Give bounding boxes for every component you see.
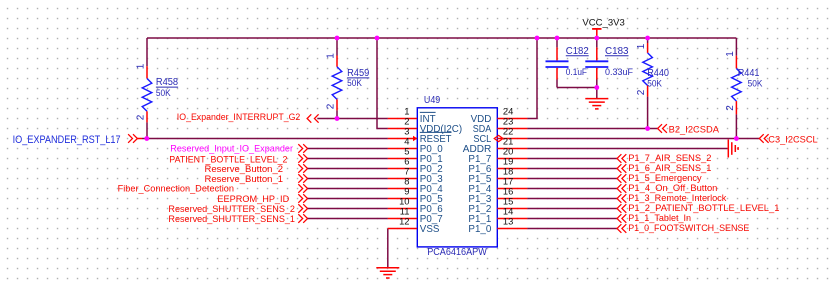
svg-text:R458: R458 <box>156 77 179 88</box>
svg-text:1: 1 <box>636 43 647 49</box>
net P1_5_Emergency label <box>617 173 702 184</box>
wire P0_3 pin 7 <box>308 178 388 180</box>
net Reserve_Button_2 label <box>205 164 308 175</box>
pin names left column <box>420 114 462 235</box>
wire capacitor bottoms join <box>557 87 597 89</box>
svg-text:2: 2 <box>725 105 736 111</box>
wire P1_5 pin 18 <box>527 178 617 180</box>
svg-text:R441: R441 <box>738 68 760 79</box>
node junction rail/R459 <box>335 36 340 41</box>
pin 3 RESET input arrow marker <box>413 136 417 142</box>
resistor R440 <box>636 38 669 129</box>
resistor R459 <box>325 38 369 119</box>
svg-text:2: 2 <box>325 103 336 109</box>
net Fiber_Connection_Detection label <box>118 183 308 194</box>
net P1_0_FOOTSWITCH_SENSE label <box>617 223 749 234</box>
wire P0_6 pin 10 <box>308 208 388 210</box>
svg-text:B2_I2CSDA: B2_I2CSDA <box>669 124 720 135</box>
node junction rail/pin24 feed <box>535 36 540 41</box>
wire P0_0 pin 4 <box>308 148 388 150</box>
net PATIENT_BOTTLE_LEVEL_2 label <box>169 154 307 165</box>
node junction rail/R440 <box>645 36 650 41</box>
ground sideways at ADDR <box>728 140 738 158</box>
pin stubs right pins 24-13 <box>497 119 527 229</box>
net P1_1_Tablet_In label <box>617 213 691 224</box>
IC U49 PCA6416APW body <box>417 95 497 258</box>
wire P1_4 pin 17 <box>527 188 617 190</box>
net IO_EXPANDER_RST_L17 label <box>13 134 142 146</box>
capacitor C183 <box>585 38 633 88</box>
pin 22 SCL diamond marker <box>494 135 503 141</box>
svg-text:12: 12 <box>399 216 409 227</box>
net P1_4_On_Off_Button label <box>617 183 717 194</box>
net P1_6_AIR_SENS_1 label <box>617 163 711 174</box>
pin numbers right 24-13 <box>503 106 513 227</box>
svg-text:0.33uF: 0.33uF <box>605 67 633 78</box>
wire VCC_3V3 rail <box>147 37 736 39</box>
wire SDA pin 23 <box>527 128 657 130</box>
wire P1_6 pin 19 <box>527 168 617 170</box>
wire P0_2 pin 6 <box>308 168 388 170</box>
node junction caps/gnd <box>594 85 599 90</box>
svg-text:VSS: VSS <box>420 224 440 235</box>
svg-text:R440: R440 <box>647 68 669 79</box>
wire SCL pin 22 <box>527 138 759 140</box>
wire P1_0 pin 13 <box>527 228 617 230</box>
svg-text:PCA6416APW: PCA6416APW <box>427 247 487 258</box>
wire P1_3 pin 16 <box>527 198 617 200</box>
net B2_I2CSDA label <box>658 124 720 135</box>
net Reserve_Button_1 label <box>205 174 308 185</box>
svg-text:U49: U49 <box>424 95 441 106</box>
svg-text:50K: 50K <box>156 88 171 99</box>
svg-text:C183: C183 <box>605 46 629 57</box>
net P1_7_AIR_SENS_2 label <box>617 153 711 164</box>
svg-text:VCC_3V3: VCC_3V3 <box>582 18 624 29</box>
resistor R458 <box>135 38 178 139</box>
capacitor C182 <box>546 38 590 88</box>
power VCC_3V3 <box>582 18 624 38</box>
svg-text:1: 1 <box>325 53 336 59</box>
node junction R458/RST <box>144 136 149 141</box>
svg-text:C3_I2CSCL: C3_I2CSCL <box>768 134 818 145</box>
pin INT overline <box>420 111 436 113</box>
svg-text:1: 1 <box>135 63 146 69</box>
ground under capacitors <box>596 88 598 99</box>
net Reserved_Input_IO_Expander label <box>170 144 307 154</box>
ground at VSS <box>376 268 399 278</box>
svg-text:Reserved_Input_IO_Expander: Reserved_Input_IO_Expander <box>170 144 293 154</box>
net Reserved_SHUTTER_SENS_2 label <box>168 204 307 215</box>
svg-text:0.1uF: 0.1uF <box>566 67 587 78</box>
net IO_Expander_INTERRUPT_G2 label <box>177 112 319 123</box>
pin RESET overline <box>420 131 452 133</box>
svg-text:Reserved_SHUTTER_SENS_1: Reserved_SHUTTER_SENS_1 <box>168 214 295 225</box>
svg-text:P1_0_FOOTSWITCH_SENSE: P1_0_FOOTSWITCH_SENSE <box>628 223 749 234</box>
wire P1_1 pin 14 <box>527 218 617 220</box>
wire VDD(I2C) pin 2 feed from rail <box>377 38 388 129</box>
svg-text:IO_EXPANDER_RST_L17: IO_EXPANDER_RST_L17 <box>13 134 121 146</box>
net P1_3_Remote_Interlock label <box>617 193 727 204</box>
pin stubs left pins 1-12 <box>388 119 417 229</box>
wire VDD pin 24 feed from rail <box>527 38 537 119</box>
net Reserved_SHUTTER_SENS_1 label <box>168 214 307 225</box>
svg-text:C182: C182 <box>566 46 589 57</box>
wire P0_4 pin 8 <box>308 188 388 190</box>
svg-text:IO_Expander_INTERRUPT_G2: IO_Expander_INTERRUPT_G2 <box>177 112 301 123</box>
wire P0_5 pin 9 <box>308 198 388 200</box>
wire P0_7 pin 11 <box>308 218 388 220</box>
svg-text:1: 1 <box>725 51 736 57</box>
svg-text:50K: 50K <box>347 78 362 89</box>
svg-text:50K: 50K <box>748 79 763 90</box>
resistor R441 <box>725 38 763 139</box>
wire VSS pin 12 down to ground <box>387 229 389 268</box>
svg-text:2: 2 <box>636 89 647 95</box>
svg-text:Fiber_Connection_Detection: Fiber_Connection_Detection <box>118 183 234 194</box>
svg-text:2: 2 <box>135 114 146 120</box>
pin names right column <box>463 114 492 235</box>
node junction R459/INT <box>335 116 340 121</box>
node junction rail/C182 <box>555 36 560 41</box>
pin numbers left 1-12 <box>399 106 409 227</box>
svg-text:50K: 50K <box>647 79 662 90</box>
wire RESET pin 3 <box>142 138 388 140</box>
node junction R440/SDA <box>645 126 650 131</box>
net EEPROM_HP_ID label <box>217 194 307 205</box>
svg-text:13: 13 <box>503 216 513 227</box>
wire ADDR pin 21 <box>527 148 727 150</box>
wire INT pin 1 <box>318 118 388 120</box>
node junction R441/SCL <box>734 136 739 141</box>
net P1_2_PATIENT_BOTTLE_LEVEL_1 label <box>617 203 779 214</box>
node junction rail/pin2 feed <box>375 36 380 41</box>
wire P1_2 pin 15 <box>527 208 617 210</box>
net C3_I2CSCL label <box>759 134 818 145</box>
svg-text:P1_0: P1_0 <box>468 224 491 235</box>
wire P1_7 pin 20 <box>527 158 617 160</box>
wire P0_1 pin 5 <box>308 158 388 160</box>
node junction rail/C183 VCC <box>594 36 599 41</box>
